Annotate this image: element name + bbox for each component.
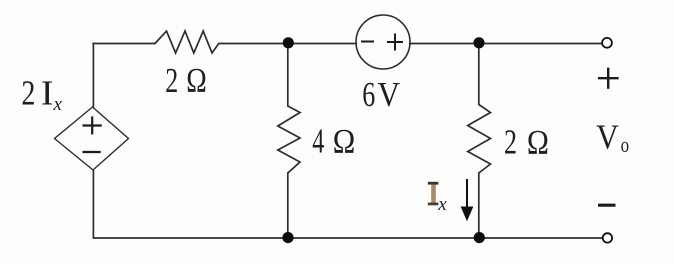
svg-text:V: V [378,75,401,114]
svg-text:Ω: Ω [333,122,356,161]
svg-text:Ω: Ω [527,123,549,162]
svg-text:2: 2 [21,74,35,113]
svg-text:x: x [53,94,63,115]
svg-text:V: V [596,118,619,157]
svg-text:Ω: Ω [186,61,207,100]
svg-text:2: 2 [504,123,517,162]
svg-text:o: o [621,132,630,157]
svg-text:2: 2 [165,61,178,100]
svg-text:I: I [41,74,54,113]
svg-text:x: x [437,194,447,215]
svg-text:4: 4 [312,122,324,161]
svg-text:6: 6 [362,75,375,114]
